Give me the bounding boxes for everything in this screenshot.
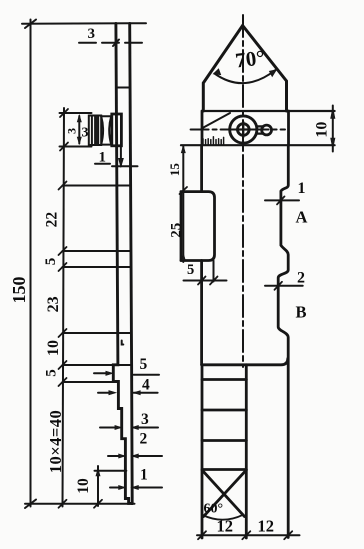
svg-text:25: 25 [168, 223, 184, 238]
blade bar left profile with steps [113, 23, 132, 503]
svg-text:23: 23 [45, 296, 62, 312]
svg-text:1: 1 [298, 180, 306, 197]
svg-text:10: 10 [45, 340, 62, 356]
cone 70 outline [203, 26, 286, 112]
inner bar line [116, 87, 130, 89]
svg-text:15: 15 [167, 163, 182, 177]
svg-text:12: 12 [217, 517, 234, 536]
head block [202, 110, 335, 112]
tick [113, 40, 119, 47]
dimension 3 top dashed line [79, 42, 143, 44]
horizontal centerline [191, 129, 285, 131]
svg-text:2: 2 [140, 431, 148, 448]
70 deg arc [215, 70, 276, 83]
svg-text:B: B [296, 303, 307, 322]
knurl marks [203, 137, 224, 145]
ladder right edge [245, 365, 248, 538]
chamfer diagonal [203, 113, 231, 128]
svg-text:70°: 70° [234, 45, 266, 72]
svg-text:4: 4 [142, 377, 150, 394]
svg-text:10: 10 [75, 478, 92, 494]
svg-text:60°: 60° [204, 502, 224, 517]
tip cross X [202, 470, 245, 517]
ladder rungs [202, 378, 246, 381]
slot box [181, 192, 215, 261]
svg-text:12: 12 [258, 517, 275, 536]
wire top edge line [22, 22, 146, 25]
body right edge with notches A B [278, 145, 288, 537]
svg-text:10×4=40: 10×4=40 [46, 410, 65, 474]
ladder left edge [201, 365, 204, 538]
body left edge [200, 145, 203, 191]
knob pin [120, 146, 122, 165]
hole circle [230, 116, 257, 143]
dimension 10 head [332, 106, 334, 152]
knob spool waist [101, 116, 103, 144]
step line [202, 359, 288, 365]
chain dimension line [63, 108, 65, 507]
svg-text:1: 1 [140, 467, 148, 484]
svg-text:3: 3 [82, 126, 89, 141]
bottom line left view [25, 503, 135, 505]
svg-text:3: 3 [141, 411, 149, 428]
knob dim lines [60, 112, 92, 114]
dimension 10 bottom [97, 466, 99, 506]
hub circle [238, 124, 250, 136]
slot channel [213, 261, 215, 282]
dimension 15 25 line [182, 146, 184, 263]
svg-text:5: 5 [187, 262, 194, 278]
small mark [122, 341, 124, 345]
blade bar right edge [130, 23, 133, 503]
tab / pointer [262, 125, 272, 135]
svg-text:3: 3 [65, 128, 79, 134]
svg-text:150: 150 [9, 277, 29, 304]
knob head [89, 116, 101, 146]
svg-text:5: 5 [43, 258, 59, 266]
svg-text:3: 3 [88, 26, 96, 42]
centerline vertical [242, 15, 244, 367]
svg-text:5: 5 [140, 356, 148, 373]
svg-text:2: 2 [297, 270, 305, 287]
svg-text:22: 22 [44, 212, 61, 228]
svg-text:5: 5 [44, 369, 60, 377]
knob flange [112, 114, 122, 146]
chain tick slashes [59, 109, 69, 508]
bottom dim line [197, 534, 300, 536]
svg-text:A: A [296, 208, 308, 227]
dimension 150 line [30, 20, 32, 507]
dimension 1 knob line [112, 165, 138, 167]
knob dim 3 arrow [78, 116, 80, 144]
svg-text:10: 10 [313, 122, 330, 138]
60 deg arc [203, 515, 244, 520]
chain ticks [63, 185, 131, 187]
